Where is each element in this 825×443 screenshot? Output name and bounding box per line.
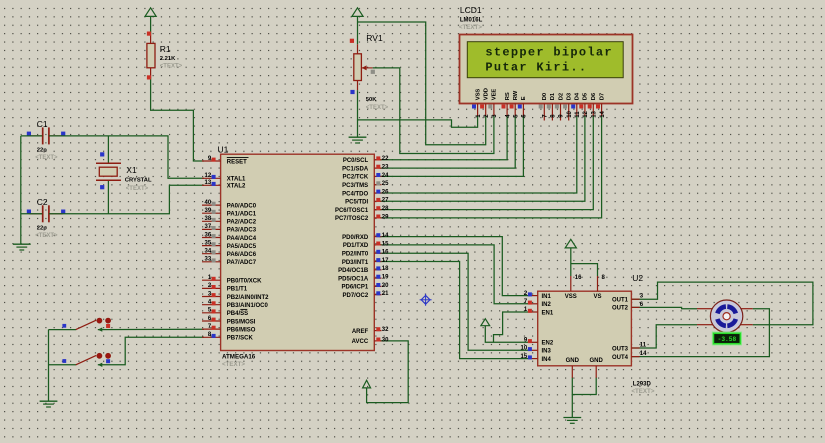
svg-text:21: 21: [382, 291, 389, 297]
wire EN1 to +5V staircase: [494, 312, 531, 342]
svg-text:PB5/MOSI: PB5/MOSI: [227, 319, 256, 325]
svg-text:14: 14: [600, 110, 606, 117]
svg-text:36: 36: [205, 232, 212, 238]
op IC U1 ATMEGA16 body: [221, 154, 375, 350]
U2 pin 6 (OUT2): [612, 302, 644, 312]
svg-text:E: E: [521, 96, 527, 100]
wire PC7 to LCD D7: [380, 116, 602, 218]
LCD pin 3 (VEE): [488, 89, 498, 118]
svg-text:<TEXT>: <TEXT>: [631, 388, 654, 395]
svg-text:RESET: RESET: [227, 159, 247, 165]
U2 pin 14 (OUT4): [612, 351, 647, 361]
U1 pin 23 (PC1/SDA): [342, 165, 389, 173]
svg-text:PB3/AIN1/OC0: PB3/AIN1/OC0: [227, 303, 269, 309]
svg-text:PA1/ADC1: PA1/ADC1: [227, 212, 257, 218]
svg-text:Putar Kiri..: Putar Kiri..: [485, 60, 587, 74]
wire C1 left to ground rail: [21, 135, 42, 137]
U1 pin 28 (PC6/TOSC1): [335, 206, 389, 214]
LCD pin 10 (D3): [563, 92, 573, 120]
svg-text:29: 29: [382, 214, 389, 220]
wire C2 left to ground rail: [21, 213, 42, 215]
potentiometer RV1: [357, 44, 359, 54]
wire PC2 to LCD E: [380, 116, 524, 177]
svg-text:33: 33: [205, 257, 212, 263]
svg-text:X1: X1: [126, 165, 137, 175]
U1 pin 19 (PD5/OC1A): [338, 275, 389, 283]
ground symbol (switches): [40, 400, 58, 402]
wire OUT1 loop to motor lower-right: [631, 282, 813, 325]
svg-text:15: 15: [382, 241, 389, 247]
U1 pin 16 (PD2/INT0): [342, 250, 389, 258]
svg-text:PA6/ADC6: PA6/ADC6: [227, 252, 257, 258]
svg-text:LM016L: LM016L: [460, 18, 483, 24]
svg-text:AREF: AREF: [352, 329, 369, 335]
LCD pin 5 (RW): [510, 90, 520, 118]
U1 pin 21 (PD7/OC2): [343, 291, 390, 299]
svg-text:25: 25: [382, 181, 389, 187]
ground symbol (U2): [563, 417, 581, 419]
svg-text:10: 10: [521, 346, 528, 352]
svg-text:C1: C1: [37, 119, 48, 129]
svg-text:PB4/SS: PB4/SS: [227, 311, 248, 317]
LCD display LCD1 LM016L body: [460, 35, 633, 104]
wire C2 right to crystal bottom / XTAL2: [49, 185, 204, 214]
svg-text:RV1: RV1: [366, 33, 383, 43]
U1 pin 24 (PC2/TCK): [343, 173, 390, 181]
resistor R1: [150, 34, 152, 43]
wire AVCC to +5V arrow: [367, 341, 409, 403]
svg-text:stepper bipolar: stepper bipolar: [485, 45, 613, 59]
svg-text:22: 22: [382, 156, 389, 162]
svg-text:PC1/SDA: PC1/SDA: [342, 166, 369, 172]
stepper motor: [697, 300, 753, 332]
svg-text:IN1: IN1: [542, 294, 552, 300]
svg-text:D1: D1: [550, 92, 556, 100]
wire OUT2 to motor upper-left: [631, 307, 697, 308]
svg-text:OUT3: OUT3: [612, 346, 629, 352]
ground symbol (RV1): [349, 136, 367, 138]
U2 pin 9 (EN2): [524, 338, 554, 347]
svg-text:22p: 22p: [37, 226, 47, 232]
U1 pin 39 (PA1/ADC1): [202, 208, 257, 218]
svg-text:<TEXT>: <TEXT>: [35, 233, 58, 239]
node crystal bottom: [107, 180, 109, 214]
svg-text:EN1: EN1: [542, 310, 554, 316]
svg-text:PD3/INT1: PD3/INT1: [342, 260, 369, 266]
svg-text:PC7/TOSC2: PC7/TOSC2: [335, 216, 369, 222]
LCD pin 1 (VSS): [472, 89, 482, 118]
svg-text:IN3: IN3: [542, 349, 552, 355]
svg-text:<TEXT>: <TEXT>: [459, 24, 482, 31]
svg-text:EN2: EN2: [542, 341, 554, 347]
wire PC5 to LCD D5: [380, 116, 585, 202]
ground rail C1-C2: [20, 136, 22, 244]
motor rpm display: [712, 332, 741, 345]
svg-text:28: 28: [382, 206, 389, 212]
wire RV1 top / VDD branch node: [357, 16, 359, 44]
svg-text:VSS: VSS: [475, 89, 481, 101]
U2 pin 11 (OUT3): [612, 342, 647, 352]
svg-text:VS: VS: [593, 294, 601, 300]
wire PC4 to LCD D4: [380, 116, 577, 194]
svg-text:12: 12: [205, 173, 212, 179]
U1 pin 7 (PB6/MISO): [202, 324, 256, 334]
U1 pin 14 (PD0/RXD): [342, 233, 389, 241]
wire PC1 to LCD RW: [380, 116, 516, 169]
U1 pin 17 (PD3/INT1): [342, 258, 389, 266]
wire upper switch right to U1 PB6 pin 7: [98, 328, 204, 330]
capacitor C2: [30, 213, 43, 215]
svg-text:PA2/ADC2: PA2/ADC2: [227, 220, 257, 226]
svg-text:PC4/TDO: PC4/TDO: [342, 191, 368, 197]
svg-text:PD6/ICP1: PD6/ICP1: [342, 285, 369, 291]
svg-text:<TEXT>: <TEXT>: [35, 155, 58, 161]
node crystal top: [107, 136, 109, 163]
switch SW1 (upper): [76, 320, 96, 329]
svg-text:37: 37: [205, 224, 212, 230]
wire R1 top to power: [150, 16, 152, 34]
svg-text:40: 40: [205, 200, 212, 206]
U2 pin 3 (OUT1): [612, 294, 644, 304]
LCD pin 8 (D1): [547, 92, 557, 120]
svg-text:PC3/TMS: PC3/TMS: [342, 183, 368, 189]
U1 pin 12 (XTAL1): [202, 173, 246, 183]
U1 pin 27 (PC5/TDI): [345, 198, 389, 206]
svg-text:VSS: VSS: [565, 294, 577, 300]
svg-text:U1: U1: [218, 145, 229, 155]
LCD pin 13 (D6): [588, 92, 598, 118]
svg-text:GND: GND: [566, 358, 580, 364]
svg-text:PA7/ADC7: PA7/ADC7: [227, 260, 257, 266]
U2 pin 8 (VS top): [593, 275, 605, 300]
svg-text:D4: D4: [575, 92, 581, 100]
svg-text:PA4/ADC4: PA4/ADC4: [227, 236, 257, 242]
power +5V arrow (AVCC): [363, 380, 371, 388]
svg-text:IN2: IN2: [542, 302, 552, 308]
motor driver U2 L293D body: [538, 291, 632, 366]
U1 pin 8 (PB7/SCK): [202, 332, 253, 342]
svg-text:PA0/ADC0: PA0/ADC0: [227, 203, 257, 209]
svg-text:14: 14: [640, 351, 647, 357]
svg-text:PC5/TDI: PC5/TDI: [345, 200, 368, 206]
svg-text:AVCC: AVCC: [352, 339, 369, 345]
svg-text:D3: D3: [567, 92, 573, 100]
svg-text:ATMEGA16: ATMEGA16: [222, 354, 256, 361]
U2 pin 16 (VSS top): [565, 275, 582, 300]
wire PC0 to LCD RS: [380, 116, 508, 160]
svg-text:D2: D2: [558, 93, 564, 100]
svg-text:11: 11: [640, 342, 647, 348]
svg-text:PA3/ADC3: PA3/ADC3: [227, 228, 257, 234]
U1 pin 30 (AVCC): [352, 337, 389, 345]
switch SW2 (lower): [76, 355, 96, 364]
LCD pin 12 (D5): [579, 92, 589, 118]
svg-text:16: 16: [575, 275, 582, 281]
U2 GND pin (left): [566, 358, 580, 378]
crystal X1: [96, 162, 121, 164]
svg-text:PB0/T0/XCK: PB0/T0/XCK: [227, 279, 262, 285]
svg-text:LCD1: LCD1: [460, 5, 482, 15]
U1 pin 13 (XTAL2): [202, 180, 246, 190]
svg-text:19: 19: [382, 275, 389, 281]
svg-text:C2: C2: [37, 197, 48, 207]
U2 GND pin (right): [590, 358, 604, 378]
wire lower switch left: [49, 364, 77, 366]
wire U2 GND pins to ground: [572, 378, 596, 395]
U1 pin 5 (PB4/SS): [202, 308, 248, 318]
svg-text:20: 20: [382, 283, 389, 289]
svg-text:RS: RS: [505, 92, 511, 100]
U2 pin 2 (IN1): [524, 291, 552, 300]
wire VDD net to LCD pin 2: [358, 22, 486, 145]
svg-text:PD5/OC1A: PD5/OC1A: [338, 276, 369, 282]
wire upper switch left: [49, 329, 77, 331]
svg-text:<TEXT>: <TEXT>: [222, 361, 245, 368]
power +5V arrow (RV1 top): [352, 8, 363, 17]
LCD pin 4 (RS): [502, 92, 512, 118]
LCD pin 11 (D4): [571, 92, 581, 118]
svg-text:PC0/SCL: PC0/SCL: [343, 158, 369, 164]
svg-text:IN4: IN4: [542, 357, 552, 363]
svg-text:2.21K: 2.21K: [160, 56, 176, 62]
svg-text:PB1/T1: PB1/T1: [227, 287, 248, 293]
wire RV1 wiper to LCD pin 3 (VEE): [373, 68, 494, 154]
U2 pin 7 (IN2): [524, 299, 552, 308]
svg-text:XTAL1: XTAL1: [227, 177, 246, 183]
wire C1 right to crystal top / XTAL1: [49, 136, 204, 178]
U1 pin 1 (PB0/T0/XCK): [202, 275, 262, 285]
svg-text:PD0/RXD: PD0/RXD: [342, 235, 369, 241]
svg-text:30: 30: [382, 337, 389, 343]
svg-text:XTAL2: XTAL2: [227, 184, 246, 190]
capacitor C1: [30, 135, 43, 137]
wire PD1 to U2 IN2: [380, 245, 531, 304]
U1 pin 25 (PC3/TMS): [342, 181, 389, 189]
U1 pin 26 (PC4/TDO): [342, 189, 389, 197]
U2 pin 10 (IN3): [521, 346, 552, 355]
svg-text:PA5/ADC5: PA5/ADC5: [227, 244, 257, 250]
svg-text:17: 17: [382, 258, 389, 264]
svg-text:GND: GND: [590, 358, 604, 364]
svg-text:VEE: VEE: [492, 89, 498, 101]
U1 pin 6 (PB5/MOSI): [202, 316, 256, 326]
svg-text:R1: R1: [160, 44, 171, 54]
svg-text:OUT4: OUT4: [612, 355, 629, 361]
svg-text:PC6/TOSC1: PC6/TOSC1: [335, 208, 369, 214]
svg-text:26: 26: [382, 189, 389, 195]
power +5V arrow (R1 top): [145, 8, 156, 17]
svg-text:-3.58: -3.58: [718, 336, 737, 343]
wire +5V to U2 VSS pin 16: [570, 248, 572, 276]
wire PD0 to U2 IN1: [380, 237, 531, 296]
wire +5V branch to U2 VS pin 8: [571, 264, 598, 276]
wire R1 bottom to U1 RESET pin 9: [151, 77, 204, 161]
wire switch rail to ground: [48, 330, 50, 401]
U1 pin 40 (PA0/ADC0): [202, 200, 257, 210]
wire PC6 to LCD D6: [380, 116, 594, 210]
svg-text:12: 12: [583, 110, 589, 117]
power +5V arrow (U2 VSS/VS): [565, 239, 576, 248]
svg-text:16: 16: [382, 250, 389, 256]
svg-text:D7: D7: [599, 93, 605, 100]
svg-text:D6: D6: [591, 92, 597, 100]
LCD pin 14 (D7): [596, 93, 606, 118]
power +5V arrow (EN1/EN2): [481, 319, 490, 326]
U1 pin 9 (RESET): [202, 156, 249, 166]
svg-text:13: 13: [592, 110, 598, 117]
LCD pin 7 (D0): [539, 93, 549, 121]
svg-text:OUT2: OUT2: [612, 306, 629, 312]
U1 pin 15 (PD1/TXD): [343, 241, 389, 249]
wire PD2 to U2 IN3: [380, 253, 531, 350]
svg-text:PD1/TXD: PD1/TXD: [343, 243, 369, 249]
U1 pin 38 (PA2/ADC2): [202, 216, 257, 226]
U1 pin 32 (AREF): [352, 327, 389, 335]
svg-text:PB7/SCK: PB7/SCK: [227, 336, 254, 342]
svg-text:CRYSTAL: CRYSTAL: [125, 178, 152, 184]
U1 pin 2 (PB1/T1): [202, 283, 248, 293]
U1 pin 20 (PD6/ICP1): [342, 283, 390, 291]
LCD pin 6 (E): [518, 96, 528, 118]
U1 pin 36 (PA4/ADC4): [202, 232, 257, 242]
svg-text:23: 23: [382, 165, 389, 171]
U1 pin 34 (PA6/ADC6): [202, 249, 257, 259]
svg-text:10: 10: [567, 110, 573, 117]
svg-text:13: 13: [205, 180, 212, 186]
wire OUT4 to motor upper-right: [631, 309, 769, 357]
svg-text:14: 14: [382, 233, 389, 239]
svg-text:22p: 22p: [37, 148, 47, 154]
U1 pin 29 (PC7/TOSC2): [335, 214, 389, 222]
svg-text:PB6/MISO: PB6/MISO: [227, 327, 256, 333]
U2 pin 15 (IN4): [521, 354, 552, 363]
svg-text:18: 18: [382, 266, 389, 272]
wire EN2 to +5V arrow: [485, 326, 530, 343]
svg-text:D0: D0: [542, 93, 548, 100]
svg-text:PD7/OC2: PD7/OC2: [343, 293, 369, 299]
U1 pin 18 (PD4/OC1B): [338, 266, 389, 274]
U1 pin 35 (PA5/ADC5): [202, 240, 257, 250]
U1 pin 3 (PB2/AIN0/INT2): [202, 291, 269, 301]
svg-text:39: 39: [205, 208, 212, 214]
U1 pin 22 (PC0/SCL): [343, 156, 389, 164]
svg-text:38: 38: [205, 216, 212, 222]
svg-text:34: 34: [205, 249, 212, 255]
LCD pin 9 (D2): [555, 93, 565, 121]
wire PD3 to U2 IN4: [380, 262, 531, 359]
svg-text:RW: RW: [513, 90, 519, 100]
U1 pin 4 (PB3/AIN1/OC0): [202, 300, 268, 310]
svg-text:PB2/AIN0/INT2: PB2/AIN0/INT2: [227, 295, 269, 301]
origin marker: [420, 294, 432, 306]
svg-text:PD4/OC1B: PD4/OC1B: [338, 268, 369, 274]
svg-text:11: 11: [575, 111, 581, 118]
svg-text:VDD: VDD: [484, 88, 490, 100]
svg-text:OUT1: OUT1: [612, 298, 629, 304]
wire RV1 bottom to ground: [357, 90, 359, 137]
svg-text:50K: 50K: [366, 97, 377, 103]
svg-text:PC2/TCK: PC2/TCK: [343, 175, 369, 181]
ground symbol (caps): [13, 243, 31, 245]
U2 pin 1 (EN1): [524, 307, 554, 316]
wire VSS net: RV1 bottom to LCD pin 1: [358, 116, 478, 128]
LCD pin 2 (VDD): [480, 88, 490, 118]
U1 pin 37 (PA3/ADC3): [202, 224, 257, 234]
wire OUT3 to motor lower-left: [631, 325, 697, 348]
svg-text:D5: D5: [583, 92, 589, 100]
U1 pin 33 (PA7/ADC7): [202, 257, 257, 267]
svg-text:<TEXT>: <TEXT>: [160, 64, 183, 70]
svg-text:24: 24: [382, 173, 389, 179]
svg-text:27: 27: [382, 198, 389, 204]
svg-text:L293D: L293D: [633, 382, 652, 388]
svg-text:15: 15: [521, 354, 528, 360]
svg-text:35: 35: [205, 240, 212, 246]
svg-text:PD2/INT0: PD2/INT0: [342, 252, 369, 258]
wire lower switch right to U1 PB7 pin 8: [98, 337, 204, 365]
svg-text:<TEXT>: <TEXT>: [126, 186, 149, 192]
svg-text:<TEXT>: <TEXT>: [366, 105, 389, 111]
svg-text:32: 32: [382, 327, 389, 333]
svg-text:U2: U2: [632, 273, 643, 283]
